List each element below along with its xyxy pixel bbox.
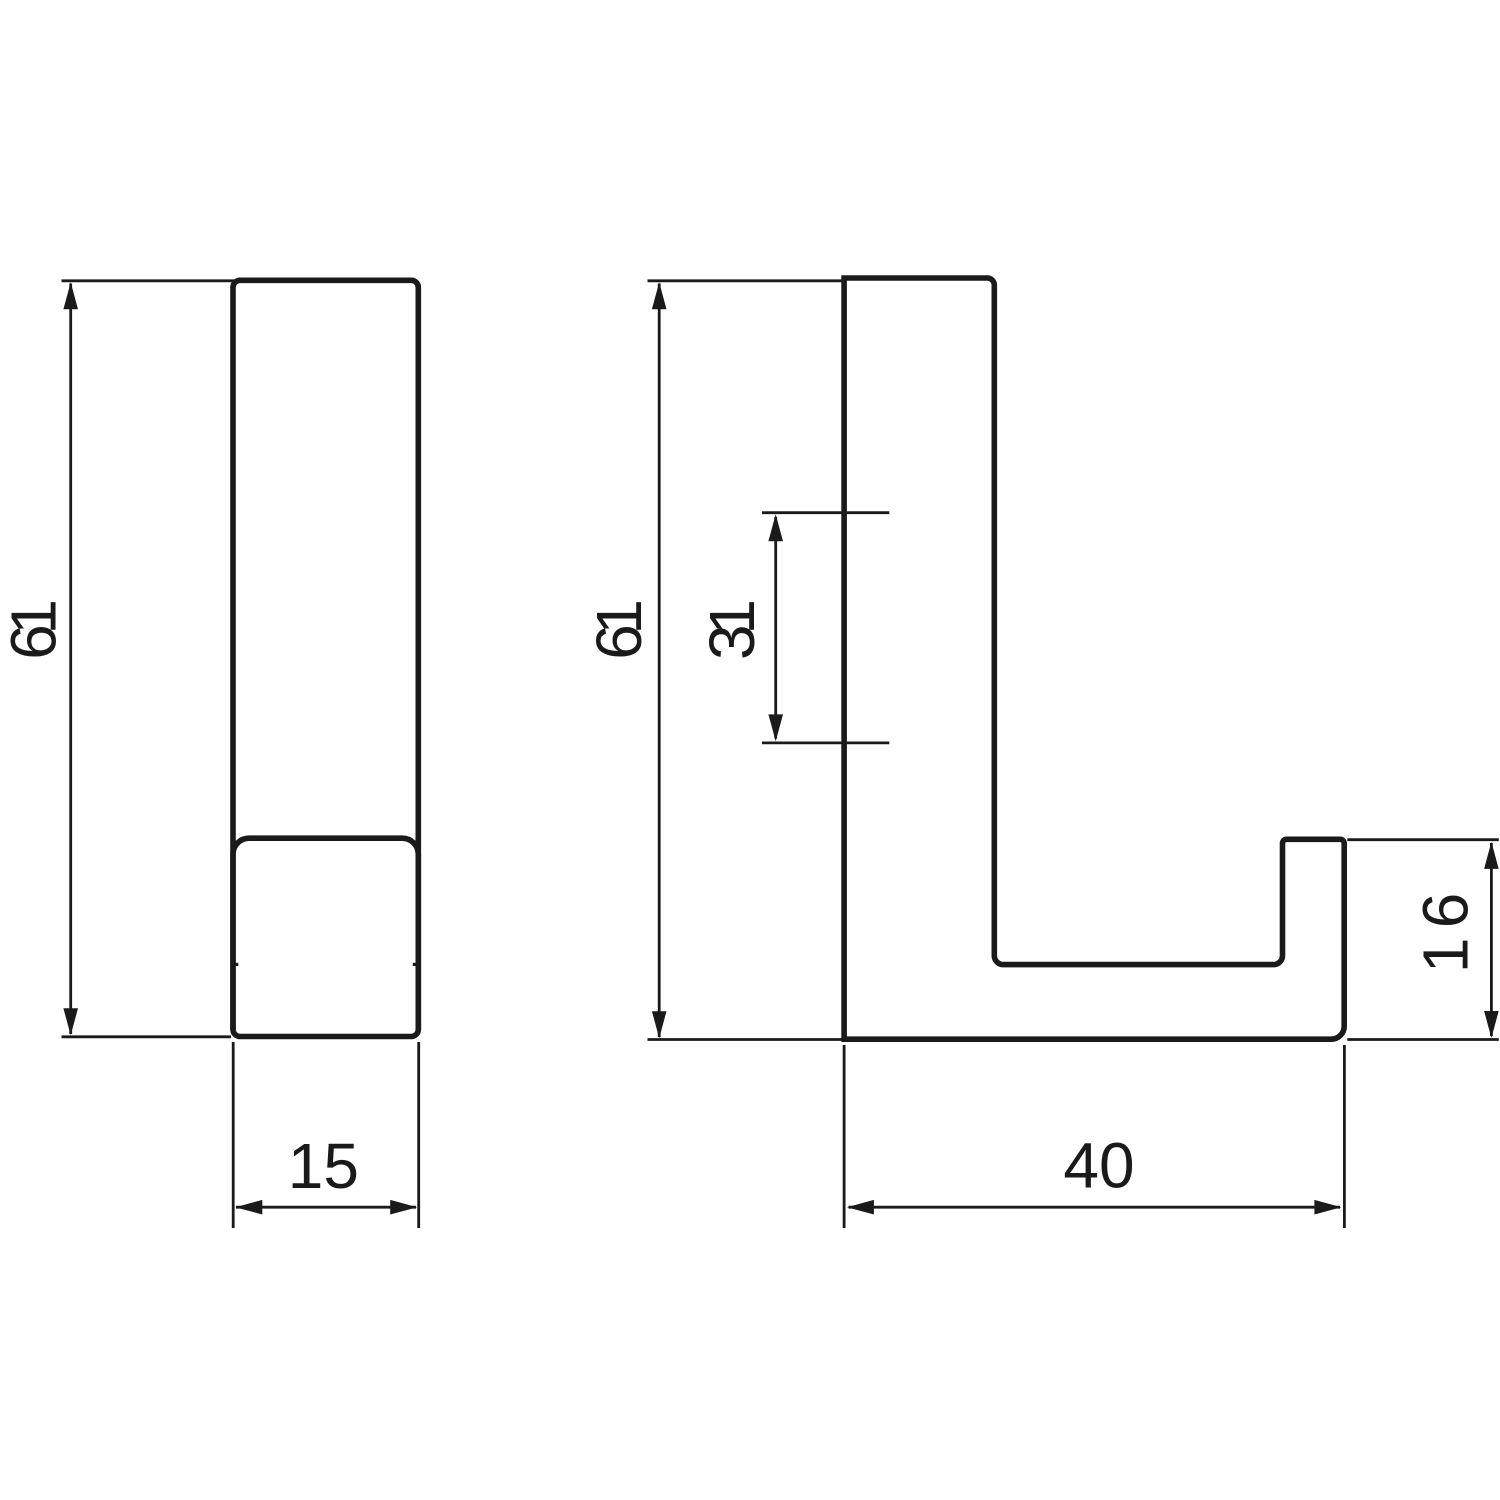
dim 61 left: bottom extension line <box>62 1035 232 1038</box>
dim 61 left: bottom arrowhead <box>63 1008 78 1035</box>
dim 40: left extension line <box>843 1045 846 1228</box>
dim 61 left: top arrowhead <box>63 282 78 309</box>
front view outer outline <box>233 280 418 1036</box>
dim 61 right: dimension line <box>658 284 661 1038</box>
side view hook outline <box>844 278 1344 1039</box>
dim 61 right: top extension line <box>648 279 843 282</box>
svg-text:1: 1 <box>583 599 655 635</box>
svg-text:6: 6 <box>1409 893 1481 929</box>
dim 16: bottom extension line <box>1347 1038 1499 1041</box>
dim 61 right: bottom arrowhead <box>652 1011 667 1038</box>
dim 40: right extension line <box>1343 1045 1346 1228</box>
dim 15: left arrowhead <box>235 1200 262 1215</box>
svg-text:1: 1 <box>1409 938 1481 974</box>
svg-text:40: 40 <box>1063 1129 1134 1201</box>
front view left witness tick <box>233 963 238 966</box>
dim 61 left: top extension line <box>62 279 236 282</box>
dim 61 left: dimension line <box>69 284 72 1035</box>
svg-text:1: 1 <box>0 599 69 635</box>
dim 61 right: bottom extension line <box>648 1038 844 1041</box>
dim 31: top extension line <box>762 511 889 514</box>
dim 15: dimension line <box>236 1206 416 1209</box>
dim 61 right: top arrowhead <box>652 282 667 309</box>
svg-text:1: 1 <box>696 599 768 635</box>
dim 40: left arrowhead <box>847 1200 874 1215</box>
dim 31: bottom extension line <box>762 742 889 745</box>
dim 15: right arrowhead <box>390 1200 417 1215</box>
dim 15: right extension line <box>417 1042 420 1228</box>
dim 16: top arrowhead <box>1484 842 1499 869</box>
dim 16: top extension line <box>1347 838 1498 841</box>
dim 15: left extension line <box>232 1042 235 1228</box>
dim 40: dimension line <box>849 1206 1341 1209</box>
dim 31: bottom arrowhead <box>768 714 783 741</box>
dim 40: right arrowhead <box>1314 1200 1341 1215</box>
svg-text:15: 15 <box>288 1130 359 1202</box>
dim 31: top arrowhead <box>768 514 783 541</box>
dim 16: bottom arrowhead <box>1484 1011 1499 1038</box>
dim 16: dimension line <box>1490 843 1493 1036</box>
front view right witness tick <box>413 963 418 966</box>
front view lower cap edge <box>233 838 418 1030</box>
dim 31: dimension line <box>774 517 777 739</box>
